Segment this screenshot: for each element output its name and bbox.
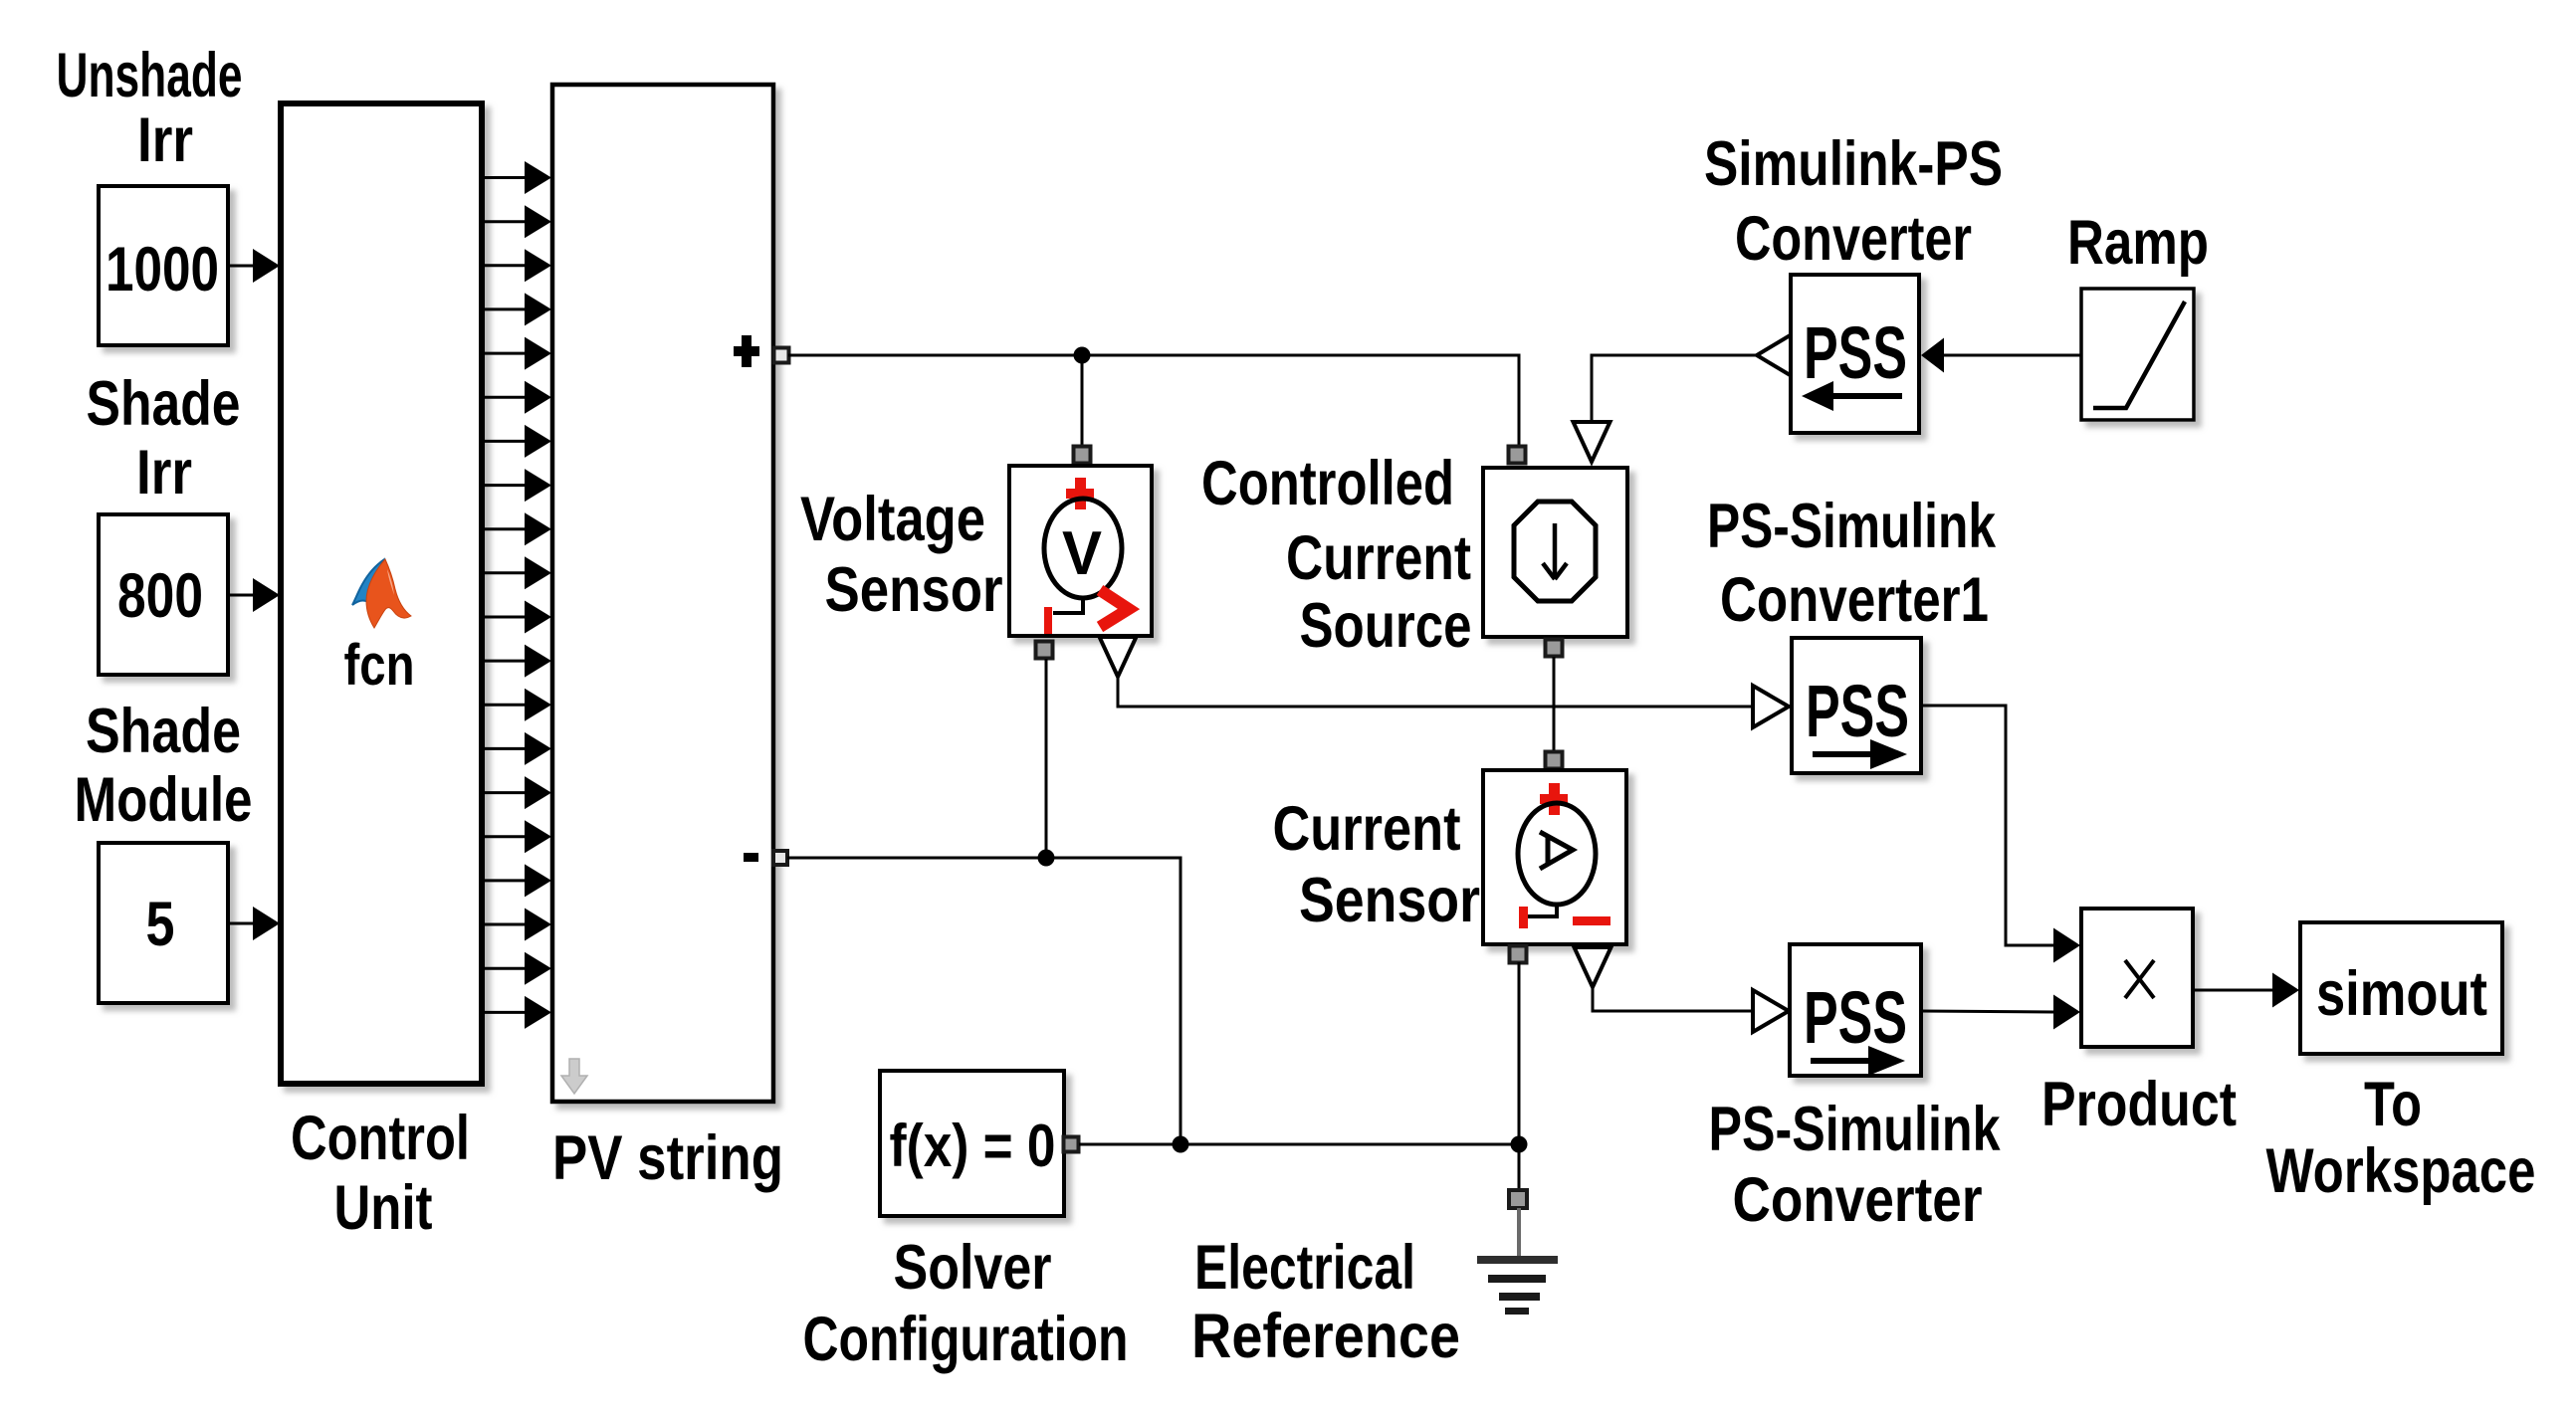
To Workspace label: [2266, 1070, 2536, 1206]
wire Current Sensor bottom to reference net: [1518, 962, 1521, 1144]
Ramp block: [2081, 289, 2194, 420]
wire Current Sensor to PS-Simulink Converter: [1593, 987, 1754, 1011]
MATLAB fcn logo: [352, 559, 411, 628]
wire Control Unit to PV string arrow 15: [483, 776, 551, 809]
Current Sensor red tick: [1519, 907, 1528, 928]
Voltage Sensor meter circle: [1044, 499, 1122, 598]
svg-text:Ramp: Ramp: [2067, 208, 2209, 278]
wire reference net down to Electrical Reference port: [1518, 1144, 1521, 1190]
svg-text:To: To: [2364, 1070, 2422, 1139]
constant block 5 (Shade Module): [99, 843, 228, 1003]
Current Sensor red plus: [1540, 783, 1568, 815]
junction + net to Voltage Sensor: [1074, 347, 1091, 364]
svg-text:Reference: Reference: [1191, 1302, 1460, 1371]
label Unshade Irr: [57, 41, 243, 175]
svg-text:Configuration: Configuration: [803, 1305, 1129, 1374]
junction reference net with - net: [1173, 1136, 1189, 1153]
PV string + port: [774, 348, 789, 363]
svg-text:fcn: fcn: [344, 633, 415, 698]
Electrical Reference ground symbol: [1477, 1208, 1558, 1315]
wire 1000 to Control Unit: [228, 249, 280, 283]
Current Sensor meter circle: [1518, 803, 1596, 905]
Control Unit label: [291, 1104, 470, 1243]
Solver Configuration label: [803, 1233, 1129, 1374]
svg-text:f(x) = 0: f(x) = 0: [890, 1113, 1056, 1179]
svg-text:V: V: [1062, 519, 1102, 588]
wire Voltage Sensor bottom port down to - net: [1045, 659, 1048, 858]
CCS bottom port: [1546, 640, 1563, 657]
PS-Simulink Converter label: [1709, 1095, 2002, 1235]
Current Sensor top port: [1546, 752, 1563, 769]
PS-Simulink Converter1 input triangle: [1753, 686, 1789, 727]
svg-text:Module: Module: [75, 765, 253, 835]
wire Control Unit to PV string arrow 19: [483, 952, 551, 985]
Simulink-PS Converter block: [1791, 275, 1919, 433]
wire Voltage Sensor to PS-Simulink Converter1: [1118, 677, 1754, 707]
PS-Simulink Converter1 label: [1707, 492, 1997, 635]
wire 5 to Control Unit: [228, 907, 280, 940]
svg-text:Sensor: Sensor: [825, 555, 1003, 625]
CCS octagon icon: [1514, 502, 1596, 601]
svg-text:Simulink-PS: Simulink-PS: [1704, 129, 2003, 199]
svg-text:Product: Product: [2041, 1070, 2237, 1139]
Simulink-PS Converter output wire to CCS control triangle: [1592, 355, 1757, 422]
svg-text:Shade: Shade: [86, 697, 241, 766]
Voltage Sensor red tick: [1044, 607, 1052, 634]
Voltage Sensor red plus: [1066, 478, 1094, 509]
svg-text:Converter1: Converter1: [1720, 565, 1989, 635]
Controlled Current Source left port: [1509, 447, 1526, 464]
Voltage Sensor top port: [1074, 447, 1091, 464]
wire Control Unit to PV string arrow 12: [483, 645, 551, 678]
Current Sensor output trace: [1527, 904, 1557, 916]
Current Sensor label: [1273, 794, 1481, 935]
junction reference net at ground: [1511, 1136, 1528, 1153]
wire Control Unit to PV string arrow 20: [483, 996, 551, 1029]
Product X icon: [2125, 960, 2154, 998]
Simulink-PS Converter left arrow icon: [1802, 381, 1902, 411]
svg-text:Electrical: Electrical: [1194, 1233, 1415, 1303]
PS-Simulink Converter block: [1790, 944, 1921, 1076]
wire Control Unit to PV string arrow 9: [483, 512, 551, 545]
svg-text:Control: Control: [291, 1104, 470, 1173]
wire Control Unit to PV string arrow 14: [483, 732, 551, 765]
svg-text:PS-Simulink: PS-Simulink: [1707, 492, 1997, 561]
Voltage Sensor block: [1009, 466, 1152, 636]
Current Sensor block: [1483, 770, 1626, 944]
wire Product to To Workspace: [2194, 973, 2299, 1008]
PS-Simulink Converter1 block: [1792, 638, 1921, 773]
Voltage Sensor bottom-left port: [1036, 642, 1053, 659]
PV string gray arrow icon: [561, 1059, 587, 1094]
CCS control input triangle: [1574, 422, 1610, 462]
svg-text:PSS: PSS: [1806, 670, 1909, 752]
svg-text:PSS: PSS: [1804, 976, 1907, 1059]
wire 800 to Control Unit: [228, 578, 280, 612]
PV string - port: [773, 851, 787, 865]
svg-text:Controlled: Controlled: [1201, 449, 1454, 518]
wire Control Unit to PV string arrow 8: [483, 469, 551, 502]
PS-Simulink Converter right arrow icon: [1811, 1046, 1905, 1076]
label Shade Irr: [87, 369, 241, 507]
Control Unit block (MATLAB Function): [281, 103, 482, 1084]
Current Sensor A glyph: [1540, 832, 1573, 869]
Voltage Sensor label: [800, 485, 1003, 625]
Current Sensor PS output triangle: [1575, 947, 1611, 987]
svg-text:Voltage: Voltage: [800, 485, 985, 554]
Voltage Sensor red chevron: [1100, 590, 1129, 627]
svg-text:Sensor: Sensor: [1299, 866, 1480, 935]
wire + net: PV+ to Controlled Current Source left port: [788, 355, 1519, 448]
Current Sensor red minus: [1573, 916, 1610, 925]
CCS down arrow: [1543, 523, 1567, 579]
Simulink-PS Converter output triangle: [1757, 334, 1792, 376]
svg-text:Shade: Shade: [87, 369, 241, 439]
Voltage Sensor PS output triangle: [1100, 637, 1137, 677]
Electrical Reference label: [1191, 1233, 1460, 1371]
svg-text:Unit: Unit: [334, 1173, 433, 1243]
wire Control Unit to PV string arrow 6: [483, 381, 551, 414]
Solver Configuration block f(x)=0: [880, 1071, 1064, 1216]
wire Control Unit to PV string arrow 1: [483, 161, 551, 194]
svg-text:PSS: PSS: [1804, 311, 1907, 394]
label Shade Module: [75, 697, 253, 835]
svg-text:1000: 1000: [106, 235, 219, 304]
To Workspace block simout: [2300, 922, 2502, 1054]
Simulink-PS Converter label: [1704, 129, 2003, 274]
wire Control Unit to PV string arrow 2: [483, 205, 551, 238]
wire PS-Simulink Converter1 to Product input 1: [1921, 706, 2080, 963]
wire Ramp to Simulink-PS Converter: [1921, 338, 2080, 373]
wire Control Unit to PV string arrow 18: [483, 909, 551, 941]
wire Control Unit to PV string arrow 4: [483, 293, 551, 325]
Voltage Sensor output trace: [1053, 597, 1083, 613]
svg-text:800: 800: [117, 561, 203, 631]
svg-text:Unshade: Unshade: [57, 41, 243, 110]
wire - net: PV- to bend: [787, 858, 1181, 1144]
svg-text:Irr: Irr: [136, 438, 192, 507]
wire Control Unit to PV string arrow 11: [483, 601, 551, 634]
wire Control Unit to PV string arrow 17: [483, 864, 551, 897]
wire reference net: Solver Configuration to ground junction: [1079, 1143, 1519, 1146]
PS-Simulink Converter input triangle: [1753, 990, 1789, 1032]
svg-text:PV string: PV string: [552, 1123, 783, 1193]
svg-text:Current: Current: [1286, 523, 1471, 593]
Controlled Current Source label: [1201, 449, 1472, 661]
PS-Simulink Converter1 right arrow icon: [1813, 739, 1907, 769]
Electrical Reference port: [1509, 1190, 1527, 1208]
Ramp icon: [2093, 302, 2185, 408]
wire + net branch down to Voltage Sensor top port: [1081, 355, 1084, 448]
wire Control Unit to PV string arrow 3: [483, 249, 551, 282]
svg-text:Workspace: Workspace: [2266, 1136, 2536, 1206]
constant block 1000 (Unshade Irr): [99, 186, 228, 345]
wire PS-Simulink Converter to Product input 2: [1921, 995, 2080, 1030]
svg-text:PS-Simulink: PS-Simulink: [1709, 1095, 2002, 1164]
svg-text:Current: Current: [1273, 794, 1461, 864]
junction - net to Voltage Sensor bottom: [1038, 850, 1055, 867]
wire Control Unit to PV string arrow 10: [483, 556, 551, 589]
PV string subsystem block: [552, 85, 773, 1102]
Current Sensor bottom-left port: [1510, 946, 1527, 963]
PV string + port label: [734, 335, 759, 367]
PV string - port label: [744, 853, 758, 862]
Controlled Current Source block: [1483, 468, 1627, 637]
constant block 800 (Shade Irr): [99, 514, 228, 675]
svg-text:Converter: Converter: [1733, 1165, 1983, 1235]
Product block: [2081, 909, 2193, 1047]
wire Control Unit to PV string arrow 5: [483, 337, 551, 370]
svg-text:simout: simout: [2316, 959, 2487, 1029]
svg-text:Solver: Solver: [894, 1233, 1052, 1303]
wire CCS bottom to Current Sensor top: [1553, 657, 1556, 751]
wire Control Unit to PV string arrow 7: [483, 425, 551, 458]
svg-text:Converter: Converter: [1735, 204, 1972, 274]
svg-text:5: 5: [146, 890, 175, 959]
svg-text:Irr: Irr: [137, 105, 193, 175]
Solver Configuration right port: [1064, 1137, 1079, 1152]
wire Control Unit to PV string arrow 16: [483, 820, 551, 853]
wire Control Unit to PV string arrow 13: [483, 689, 551, 721]
svg-text:Source: Source: [1300, 591, 1472, 661]
